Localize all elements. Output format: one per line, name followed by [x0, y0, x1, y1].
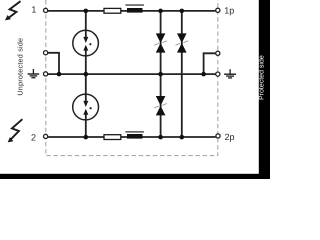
- svg-text:2p: 2p: [225, 132, 235, 142]
- terminal 2: [44, 134, 48, 138]
- gas discharge tube F1: [73, 30, 99, 56]
- terminal 1: [44, 8, 48, 12]
- inductor L1: [125, 4, 143, 12]
- ground right: [224, 69, 236, 78]
- node earth left link: [57, 72, 62, 77]
- wire GDT column upper: [85, 11, 87, 38]
- node earth GDT: [84, 72, 89, 77]
- bottom black bar: [0, 174, 270, 179]
- node earth right link: [201, 72, 206, 77]
- wire right earth terminal link: [204, 53, 216, 74]
- node bottom GDT: [84, 135, 89, 140]
- wire left earth terminal link: [48, 53, 59, 74]
- node earth TVS A: [158, 72, 163, 77]
- TVS diode V1: [154, 33, 167, 52]
- wire TVS column A: [160, 11, 162, 137]
- gas discharge tube F2: [73, 94, 99, 120]
- wire GDT column middle: [85, 50, 87, 101]
- resistor R1: [104, 8, 121, 13]
- lightning bolt top-left: [5, 1, 21, 20]
- wire earth rail: [48, 73, 215, 75]
- TVS diode V3: [154, 96, 167, 115]
- svg-text:Unprotected side: Unprotected side: [15, 38, 24, 96]
- protected side black panel: [259, 0, 270, 179]
- ground left: [28, 69, 40, 78]
- terminal earth left upper: [44, 51, 48, 55]
- wire bottom rail (line 2): [48, 136, 216, 138]
- node top TVS A: [158, 9, 163, 14]
- TVS diode V2: [176, 33, 189, 52]
- terminal earth right lower: [216, 72, 220, 76]
- svg-text:2: 2: [31, 132, 36, 142]
- node top GDT: [84, 9, 89, 14]
- wire TVS column B: [181, 11, 183, 137]
- node top TVS B: [180, 9, 185, 14]
- inductor L2: [125, 131, 143, 139]
- svg-text:1p: 1p: [224, 5, 234, 15]
- node bottom TVS A: [158, 135, 163, 140]
- wire top rail (line 1): [48, 10, 215, 12]
- terminal 1p: [216, 8, 220, 12]
- terminal earth right upper: [216, 51, 220, 55]
- device outline (dashed enclosure): [46, 0, 218, 156]
- svg-text:Protected side: Protected side: [258, 55, 266, 100]
- wire GDT column lower: [85, 114, 87, 137]
- node bottom TVS B: [180, 135, 185, 140]
- svg-text:1: 1: [31, 5, 36, 15]
- resistor R2: [104, 135, 121, 140]
- terminal 2p: [216, 134, 220, 138]
- lightning bolt bottom-left: [8, 119, 23, 142]
- terminal earth left lower: [44, 72, 48, 76]
